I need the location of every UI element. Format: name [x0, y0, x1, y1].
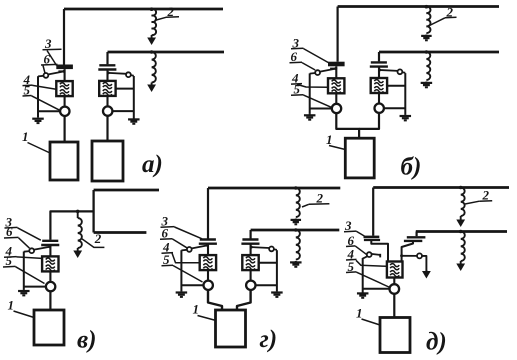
wire capacitor 1 to unit box, figure d — [371, 240, 388, 262]
wire lamp to receiver, figure a branch 1 — [63, 116, 65, 142]
leader of label 3, figure b — [304, 49, 329, 63]
leader of label 3, figure g — [175, 227, 203, 239]
figure a: down-lead wire branch 1 — [63, 9, 65, 65]
arrester (pos.3) of b-branch-1 — solid bar — [328, 62, 345, 67]
wire switch 2 to arrow ground, figure d — [422, 256, 426, 273]
ground of g-branch-1 — [180, 291, 182, 292]
drain coil (pos.2) on line 2 of figure g — [296, 230, 300, 260]
figure b: junction on line 2 — [425, 50, 429, 54]
leader of label 1, figure d — [362, 319, 381, 325]
drain coil (pos.2) on line 1 of figure d — [461, 188, 465, 217]
drain coil (pos.2) on line 2 of figure a — [152, 52, 156, 83]
capacitor (pos.3) of g-branch-1 — plates — [200, 238, 216, 240]
earth ground of coil, figure b line 1 — [425, 35, 427, 36]
receiver box (pos.1), figure a branch 1 — [50, 142, 78, 180]
leader of label 4, figure d — [356, 260, 387, 266]
wire unit box to lamp of b-branch-2 — [378, 93, 380, 104]
figure d: junction on line 2 — [459, 230, 463, 234]
figure g: down-lead wire branch 1 — [207, 188, 209, 239]
switch blade (pos.6) of a-branch-2 — [108, 72, 126, 75]
figure g: junction on line 2 — [294, 228, 298, 232]
wire lamp to rail, figure d — [363, 288, 390, 290]
switch blade (pos.6) of figure d branch 1 — [371, 254, 380, 255]
switch contact circle (pos.6) of v-branch — [29, 248, 34, 253]
leader of label 4, figure a — [33, 85, 57, 89]
leader line of label 2, figure v — [82, 239, 105, 248]
arrow ground of coil, figure d line 2 — [460, 261, 462, 269]
switch contact circle (pos.6) of g-branch-1 — [187, 247, 192, 252]
svg-text:2: 2 — [94, 231, 102, 246]
figure v: lighting line 1 — [94, 189, 159, 192]
switch blade (pos.6) of figure d branch 2 — [400, 254, 403, 257]
svg-text:1: 1 — [22, 129, 29, 144]
leader of label 4, figure b — [297, 84, 328, 87]
figure a: antenna line 2 — [108, 51, 225, 54]
wire lamp to rail of b-branch-2 — [384, 107, 406, 109]
figure v: branch wire to unit — [50, 211, 93, 239]
leader of label 1, figure v — [14, 311, 35, 318]
switch contact circle (pos.6) of a-branch-2 — [126, 72, 131, 77]
svg-text:в): в) — [77, 327, 97, 354]
switch blade (pos.6) of b-branch-2 — [380, 69, 398, 72]
leader of label 5, figure d — [357, 272, 391, 287]
wire a-branch-2 element to unit box — [106, 70, 108, 81]
wire unit box to lamp of g-branch-1 — [207, 270, 209, 281]
wire switch to earthing rail of v-branch — [24, 250, 30, 253]
figure b: down-lead wire branch 1 — [337, 7, 339, 62]
ground of figure d rail — [362, 292, 364, 293]
wire unit box to lamp, figure d — [393, 278, 395, 285]
leader of label 4, figure v — [17, 257, 42, 259]
indicator lamp (pos.5) of figure d — [390, 284, 400, 294]
figure b: junction on line 1 — [425, 5, 429, 9]
filter unit box (pos.4) of v-branch — [42, 256, 58, 271]
wire v-branch element to unit box — [49, 245, 51, 256]
wire lamp to rail of a-branch-1 — [38, 110, 60, 112]
filter unit box (pos.4) of figure d — [387, 262, 403, 278]
drain coil (pos.2) on line 2 of figure d — [461, 232, 465, 262]
filter unit box (pos.4) of g-branch-2 — [242, 255, 258, 270]
figure a: antenna line 1 — [64, 8, 223, 11]
earthing rail wire of a-branch-2 — [133, 76, 135, 118]
leader line of label 2, figure d — [465, 201, 479, 204]
arrester (pos.3) of a-branch-1 — solid bar — [56, 65, 73, 70]
arrow ground of coil, figure d line 1 — [460, 216, 462, 225]
leader of label 4, figure g — [172, 253, 200, 263]
arrow ground of coil, figure a line 2 — [151, 83, 153, 91]
figure a: junction on line 2 — [150, 50, 154, 54]
wire unit box to rail of a-branch-2 — [116, 88, 134, 90]
figure b: lighting line 2 — [379, 51, 499, 54]
wire g-branch-1 element to unit box — [207, 244, 209, 255]
earth ground of coil, figure g line 2 — [295, 261, 297, 262]
earthing rail wire of figure d — [362, 258, 364, 292]
figure g: lighting line 2 — [251, 229, 340, 232]
arrow ground of coil, figure a line 1 — [151, 35, 153, 43]
ground of b-branch-1 — [309, 114, 311, 115]
svg-text:3: 3 — [44, 36, 52, 51]
switch blade (pos.6) of a-branch-1 — [48, 71, 64, 74]
capacitor (pos.3) of g-branch-2 — plates — [242, 238, 258, 240]
wire b-branch-2 element to unit box — [378, 67, 380, 78]
indicator lamp (pos.5) of a-branch-2 — [103, 106, 112, 115]
wire switch 1 to earthing rail, figure d — [363, 256, 368, 258]
wire switch to earthing rail of g-branch-2 — [274, 248, 277, 251]
svg-text:1: 1 — [326, 132, 333, 147]
capacitor (pos.3) of figure d branch 1 — plates — [364, 236, 380, 239]
wire branch 2 to common point, figure b — [359, 113, 379, 129]
figure g: down-lead wire branch 2 — [250, 230, 252, 239]
switch blade (pos.6) of v-branch — [34, 247, 50, 250]
earthing rail wire of b-branch-1 — [309, 73, 311, 114]
wire lamp to receiver, figure v — [49, 291, 51, 310]
svg-text:1: 1 — [8, 298, 15, 313]
arrow ground of coil, figure v — [77, 248, 79, 256]
capacitor (pos.3) of v-branch — plates — [42, 240, 58, 242]
leader of label 1, figure a — [28, 143, 51, 154]
ground of g-branch-2 — [276, 291, 278, 292]
wire unit box to lamp of a-branch-2 — [106, 96, 108, 107]
leader of label 3, figure v — [18, 228, 41, 240]
svg-text:1: 1 — [356, 306, 363, 321]
receiver box (pos.1) of figure g — [216, 310, 246, 347]
figure v: junction of coil tap — [76, 210, 80, 214]
receiver box (pos.1), figure a branch 2 — [92, 141, 123, 181]
drain coil (pos.2) on line 2 of figure b — [426, 52, 430, 80]
earthing rail wire of a-branch-1 — [37, 76, 39, 117]
wire unit box to lamp of g-branch-2 — [250, 270, 252, 281]
svg-text:д): д) — [426, 329, 447, 356]
leader of label 6, figure g — [173, 239, 188, 248]
leader of label 6, figure v — [19, 238, 30, 248]
switch blade (pos.6) of g-branch-1 — [191, 245, 207, 248]
drain coil (pos.2) of figure v — [77, 211, 79, 218]
switch contact circle (pos.6) of figure d branch 1 — [367, 252, 372, 257]
switch blade (pos.6) of g-branch-2 — [251, 246, 269, 249]
receiver box (pos.1) of figure v — [34, 310, 64, 345]
figure d: lighting line 2 — [416, 230, 507, 233]
figure g: junction on line 1 — [294, 186, 298, 190]
wire lamp to rail of b-branch-1 — [310, 108, 332, 110]
wire unit box to rail of b-branch-2 — [387, 85, 405, 87]
switch fixed contact pad, figure d branch 1 — [379, 254, 381, 258]
wire lamp to rail of g-branch-1 — [181, 284, 203, 286]
leader line of label 2, figure a — [155, 17, 180, 21]
wire b-branch-1 element to unit box — [335, 66, 337, 78]
switch contact circle (pos.6) of b-branch-2 — [398, 69, 403, 74]
wire switch to earthing rail of a-branch-2 — [131, 74, 134, 77]
figure a: junction on line 1 — [150, 7, 154, 11]
wire switch to earthing rail of b-branch-1 — [310, 72, 316, 75]
wire switch to earthing rail of b-branch-2 — [402, 71, 405, 74]
wire lamp to receiver, figure g branch 1 — [208, 290, 222, 310]
drain coil (pos.2) on line 1 of figure g — [296, 188, 300, 217]
wire lamp to rail of a-branch-2 — [112, 110, 134, 112]
svg-text:г): г) — [260, 326, 278, 353]
capacitor (pos.3) of b-branch-2 — plates — [371, 61, 387, 63]
leader line of label 2, figure g — [302, 204, 309, 207]
leader of label 3, figure d — [357, 231, 365, 236]
earthing rail wire of v-branch — [23, 252, 25, 290]
wire unit box to rail of g-branch-2 — [259, 262, 277, 264]
ground of a-branch-2 — [133, 118, 135, 119]
figure d: down-lead wire branch 2 — [416, 232, 418, 237]
indicator lamp (pos.5) of g-branch-1 — [204, 281, 213, 290]
figure v: lighting line 2 — [94, 231, 147, 234]
figure b: lighting line 1 — [338, 5, 499, 8]
figure v: jumper between the two lines — [92, 190, 94, 233]
switch contact circle (pos.6) of a-branch-1 — [44, 73, 49, 78]
wire capacitor 2 to unit box, figure d — [402, 241, 413, 262]
filter unit box (pos.4) of g-branch-1 — [200, 255, 216, 270]
earthing rail wire of g-branch-1 — [180, 250, 182, 291]
filter unit box (pos.4) of b-branch-2 — [371, 78, 387, 93]
wire lamp to rail of v-branch — [24, 286, 46, 288]
drain coil (pos.2) on line 1 of figure b — [426, 6, 430, 33]
figure b: down-lead wire branch 2 — [378, 52, 380, 61]
switch contact circle (pos.6) of g-branch-2 — [269, 247, 274, 252]
wire lamp to receiver, figure d — [393, 294, 395, 318]
ground of v-branch — [23, 290, 25, 291]
figure d: junction on line 1 — [459, 186, 463, 190]
capacitor (pos.3) of figure d branch 2 — plates — [407, 236, 426, 238]
earth ground of coil, figure g line 1 — [295, 219, 297, 220]
svg-text:б): б) — [401, 154, 422, 181]
indicator lamp (pos.5) of b-branch-1 — [332, 104, 341, 113]
wire lamps to common point, figure b — [336, 113, 359, 138]
wire switch to earthing rail of a-branch-1 — [38, 75, 44, 78]
wire lamp to receiver, figure a branch 2 — [106, 116, 108, 141]
indicator lamp (pos.5) of v-branch — [46, 282, 55, 291]
capacitor (pos.3) of a-branch-2 — plates — [99, 64, 115, 66]
leader of label 6, figure a — [43, 66, 45, 74]
figure a: down-lead wire branch 2 — [106, 52, 108, 64]
ground of b-branch-2 — [404, 115, 406, 116]
ground of a-branch-1 — [37, 117, 39, 118]
earthing rail wire of g-branch-2 — [276, 250, 278, 291]
figure d: down-lead wire branch 1 — [372, 188, 374, 236]
leader of label 3, figure a — [47, 51, 57, 66]
drain coil (pos.2) on line 1 of figure a — [152, 9, 157, 35]
svg-text:а): а) — [142, 151, 163, 178]
leader of label 5, figure a — [32, 96, 61, 111]
indicator lamp (pos.5) of g-branch-2 — [246, 281, 255, 290]
receiver box (pos.1) of figure b — [345, 138, 374, 178]
switch blade (pos.6) of b-branch-1 — [320, 69, 336, 72]
leader of label 6, figure d — [356, 246, 367, 254]
switch contact circle (pos.6) of b-branch-1 — [315, 70, 320, 75]
earth ground of coil, figure b line 2 — [425, 82, 427, 83]
leader of label 5, figure v — [16, 267, 45, 284]
filter unit box (pos.4) of a-branch-2 — [99, 81, 115, 96]
leader of label 6, figure b — [302, 63, 315, 70]
arrow ground of switch 2, figure d — [425, 270, 427, 277]
leader of label 5, figure g — [173, 266, 203, 283]
wire g-branch-2 element to unit box — [250, 244, 252, 255]
figure d: lighting line 1 — [373, 186, 509, 189]
wire switch to earthing rail of g-branch-1 — [181, 249, 187, 252]
leader of label 1, figure g — [198, 316, 217, 321]
filter unit box (pos.4) of a-branch-1 — [56, 81, 72, 96]
wire a-branch-1 element to unit box — [64, 69, 66, 81]
wire lamp to receiver, figure g branch 2 — [237, 290, 251, 310]
leader of label 1, figure b — [329, 146, 345, 150]
svg-text:6: 6 — [6, 224, 13, 239]
switch contact circle (pos.6) of figure d branch 2 — [417, 253, 422, 258]
svg-text:1: 1 — [193, 302, 200, 317]
wire unit box to lamp of b-branch-1 — [335, 93, 337, 104]
filter unit box (pos.4) of b-branch-1 — [328, 78, 344, 93]
leader line of label 2, figure b — [430, 18, 446, 26]
receiver box (pos.1) of figure d — [380, 318, 410, 353]
wire lamp to rail of g-branch-2 — [255, 284, 277, 286]
wire unit box to lamp of a-branch-1 — [64, 96, 66, 107]
earthing rail wire of b-branch-2 — [404, 73, 406, 115]
leader of label 5, figure b — [304, 95, 332, 107]
indicator lamp (pos.5) of b-branch-2 — [375, 104, 384, 113]
svg-text:5: 5 — [294, 81, 301, 96]
wire unit box to lamp of v-branch — [49, 271, 51, 282]
figure g: lighting line 1 — [208, 187, 340, 190]
indicator lamp (pos.5) of a-branch-1 — [60, 107, 69, 116]
